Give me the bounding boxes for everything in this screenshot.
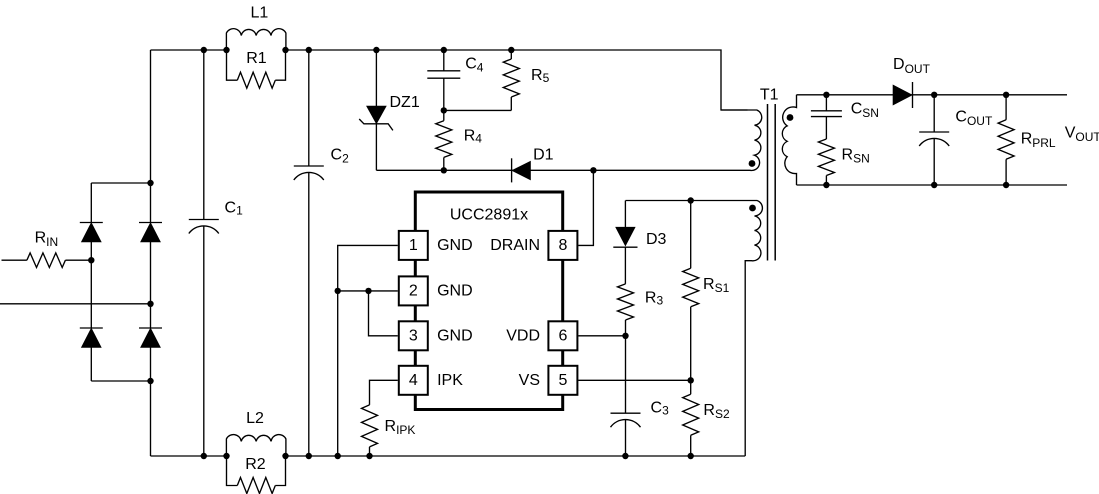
- diode D_OUT: [893, 82, 912, 108]
- svg-text:8: 8: [558, 237, 567, 254]
- node top rail R5: [508, 47, 514, 53]
- wire pin3 to gnd net: [369, 291, 398, 336]
- label R4: [464, 128, 483, 146]
- resistor R5: [503, 50, 519, 110]
- svg-text:DZ1: DZ1: [390, 94, 420, 111]
- svg-text:IPK: IPK: [437, 372, 463, 389]
- wire bottom rail right segment: [286, 455, 745, 457]
- wire bridge right leg middle: [150, 242, 152, 328]
- node L2 left: [223, 453, 229, 459]
- svg-text:D1: D1: [533, 146, 554, 163]
- label R_IPK: [385, 418, 416, 437]
- zener DZ1: [359, 50, 393, 170]
- diode bridge lower-right: [139, 328, 162, 347]
- node bridge bottom: [147, 378, 153, 384]
- svg-text:4: 4: [409, 372, 418, 389]
- inductor L1: [226, 29, 286, 50]
- svg-text:VDD: VDD: [506, 327, 540, 344]
- wire bottom rail left segment: [151, 455, 227, 457]
- wire AC input 2: [0, 303, 151, 305]
- svg-text:VS: VS: [519, 372, 540, 389]
- pin 1 box: [399, 231, 428, 260]
- node L2 right: [282, 453, 288, 459]
- resistor R_SN: [818, 139, 834, 185]
- label UCC2891x: [450, 207, 528, 224]
- svg-text:2: 2: [409, 283, 418, 300]
- label R_SN: [842, 146, 870, 165]
- diode bridge upper-left: [80, 223, 103, 242]
- label C2: [331, 147, 350, 166]
- wire pin4 to R_IPK: [370, 380, 398, 405]
- svg-text:L1: L1: [251, 4, 269, 21]
- label R1: [246, 50, 267, 67]
- label VDD pin6: [506, 327, 540, 344]
- label GND pin1: [437, 237, 473, 254]
- resistor R_IN: [2, 253, 92, 268]
- node C4 R4 junction: [441, 107, 447, 113]
- wire gnd net drop: [337, 291, 339, 456]
- diode bridge lower-left: [80, 328, 103, 347]
- node L1 right: [282, 47, 288, 53]
- label R_S2: [703, 402, 730, 421]
- label C_OUT: [955, 109, 993, 128]
- wire R5 to C4 junction: [444, 109, 512, 111]
- label L2: [246, 410, 264, 427]
- svg-text:6: 6: [558, 328, 567, 345]
- svg-text:GND: GND: [437, 237, 473, 254]
- label C3: [651, 400, 670, 418]
- label R2: [245, 456, 266, 473]
- capacitor C_OUT: [919, 95, 949, 185]
- wire pin5 to VS net: [578, 379, 691, 381]
- wire pin8 to drain: [578, 170, 593, 245]
- node R_SN bottom: [823, 182, 829, 188]
- pin 5 box: [548, 366, 577, 395]
- pin 4 box: [399, 366, 428, 395]
- resistor R_S1: [683, 201, 699, 381]
- label C1: [225, 200, 244, 218]
- diode bridge upper-right: [139, 223, 162, 242]
- node bottom rail gnd drop: [335, 453, 341, 459]
- label DZ1: [390, 94, 420, 111]
- wire top rail to transformer: [286, 50, 748, 110]
- inductor L2: [226, 435, 286, 456]
- pin 6 box: [548, 321, 577, 350]
- pin 2 box: [399, 276, 428, 305]
- label GND pin2: [437, 282, 473, 299]
- svg-text:GND: GND: [437, 327, 473, 344]
- label R_S1: [703, 276, 730, 295]
- node bottom rail R_S2: [688, 453, 694, 459]
- polarity dot secondary: [787, 114, 794, 121]
- svg-text:L2: L2: [246, 410, 264, 427]
- label D3: [646, 231, 667, 248]
- node VDD junction: [622, 333, 628, 339]
- label D_OUT: [893, 56, 931, 76]
- wire bridge left leg lower: [90, 347, 92, 381]
- node bottom rail R_IPK: [366, 453, 372, 459]
- svg-text:T1: T1: [760, 86, 779, 103]
- node R_PRL top: [1003, 92, 1009, 98]
- node top rail C4: [441, 47, 447, 53]
- wire bridge top bar: [91, 182, 150, 184]
- label C4: [465, 55, 484, 74]
- node C_OUT bottom: [931, 182, 937, 188]
- polarity dot primary: [749, 160, 756, 167]
- resistor R_IPK: [362, 405, 378, 456]
- node top rail C1: [201, 47, 207, 53]
- label C_SN: [851, 101, 879, 121]
- diode D1: [512, 158, 531, 182]
- node aux RS1 junction: [688, 197, 694, 203]
- node top rail C2: [306, 47, 312, 53]
- node C_SN top: [823, 92, 829, 98]
- svg-text:R2: R2: [245, 456, 266, 473]
- node L1 left: [223, 47, 229, 53]
- wire output bottom rail: [797, 184, 1068, 186]
- node gnd net left: [335, 288, 341, 294]
- diode D3: [613, 227, 637, 284]
- node bridge top: [147, 180, 153, 186]
- svg-text:5: 5: [558, 372, 567, 389]
- svg-text:R1: R1: [246, 50, 267, 67]
- wire bridge left leg upper: [90, 183, 92, 223]
- resistor R4: [436, 110, 452, 170]
- transformer T1 secondary winding: [782, 95, 796, 185]
- resistor R2: [227, 456, 286, 494]
- node R_PRL bottom: [1003, 182, 1009, 188]
- wire bridge bottom bar: [91, 380, 150, 382]
- svg-text:DRAIN: DRAIN: [490, 237, 540, 254]
- svg-text:UCC2891x: UCC2891x: [450, 207, 528, 224]
- wire output top rail: [797, 94, 1068, 96]
- wire drain to primary: [593, 169, 748, 171]
- label VS pin5: [519, 372, 540, 389]
- wire D1 net: [376, 169, 593, 171]
- label L1: [251, 4, 269, 21]
- resistor R_PRL: [998, 95, 1014, 185]
- label GND pin3: [437, 327, 473, 344]
- capacitor C2: [294, 50, 324, 456]
- label IPK pin4: [437, 372, 463, 389]
- resistor R_S2: [683, 380, 699, 456]
- wire bridge left leg middle: [90, 242, 92, 328]
- wire aux to D3: [624, 201, 626, 228]
- node bottom rail C2: [306, 453, 312, 459]
- resistor R3: [618, 284, 634, 336]
- pin 3 box: [399, 321, 428, 350]
- wire bridge right leg from top rail: [150, 50, 152, 223]
- label R5: [531, 67, 550, 85]
- transformer T1 aux winding: [626, 201, 763, 457]
- node VS junction: [688, 377, 694, 383]
- op-amp U1 UCC2891x body: [415, 192, 562, 410]
- polarity dot aux: [749, 205, 756, 212]
- capacitor C3: [611, 336, 641, 456]
- capacitor C4: [427, 50, 460, 110]
- node C_OUT top: [931, 92, 937, 98]
- capacitor C_SN: [811, 95, 842, 139]
- label R_IN: [35, 229, 59, 249]
- label DRAIN pin8: [490, 237, 540, 254]
- transformer T1 primary winding: [721, 110, 762, 170]
- svg-text:3: 3: [409, 328, 418, 345]
- svg-text:GND: GND: [437, 282, 473, 299]
- node R_IN junction: [88, 257, 94, 263]
- svg-text:1: 1: [409, 237, 418, 254]
- label D1: [533, 146, 554, 163]
- wire top rail left segment: [151, 49, 227, 51]
- svg-text:D3: D3: [646, 231, 667, 248]
- wire pin1 to gnd net: [338, 245, 398, 291]
- label R3: [645, 290, 664, 308]
- pin 8 box: [548, 231, 577, 260]
- transformer core: [768, 104, 776, 261]
- node bottom rail C1: [201, 453, 207, 459]
- label V_OUT: [1065, 125, 1099, 145]
- node gnd net right: [365, 288, 371, 294]
- node R4 bottom junction: [441, 167, 447, 173]
- label T1: [760, 86, 779, 103]
- node bottom rail C3: [622, 453, 628, 459]
- node drain junction: [590, 167, 596, 173]
- node top rail DZ1: [373, 47, 379, 53]
- label R_PRL: [1021, 131, 1056, 151]
- wire bridge right leg to bottom rail: [150, 347, 152, 456]
- node AC input 2 junction: [147, 301, 153, 307]
- capacitor C1: [189, 50, 219, 456]
- wire pin6 to VDD net: [578, 335, 625, 337]
- wire pin2 to gnd net: [338, 290, 398, 292]
- resistor R1: [227, 50, 286, 88]
